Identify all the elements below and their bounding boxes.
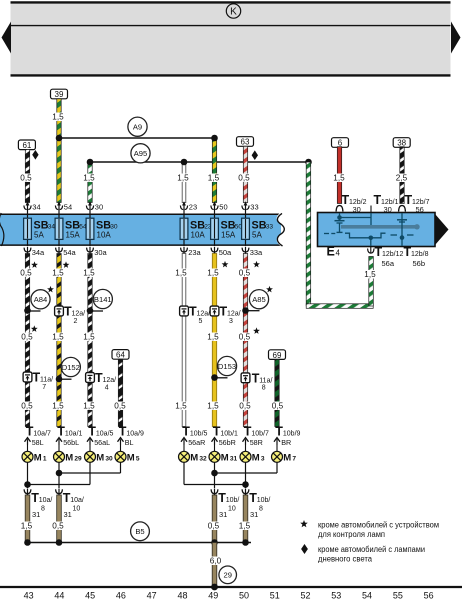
svg-text:4: 4 <box>105 384 109 391</box>
legend star <box>300 520 308 527</box>
svg-text:1,5: 1,5 <box>333 174 345 183</box>
lamp M31 <box>209 451 220 462</box>
svg-text:1,5: 1,5 <box>364 270 376 279</box>
wire 50a yellow <box>212 254 216 427</box>
svg-text:0,5: 0,5 <box>239 269 251 278</box>
diamond mark <box>252 150 258 160</box>
node A95 <box>131 144 150 163</box>
wire A95 to T12b/12, green/white 1.5 <box>306 162 311 306</box>
diamond mark <box>32 150 38 160</box>
svg-text:34a: 34a <box>32 248 45 257</box>
svg-text:дневного света: дневного света <box>318 554 373 563</box>
wire A95 to SB30, green/white 1.5 <box>88 162 92 203</box>
wire 64 black/white 0.5 <box>118 359 122 426</box>
svg-text:30: 30 <box>95 203 103 212</box>
wire 54a yellow/black <box>57 254 61 427</box>
svg-text:56: 56 <box>424 591 434 600</box>
node A9 <box>128 117 147 136</box>
svg-text:кроме автомобилей с устройство: кроме автомобилей с устройством <box>318 520 439 529</box>
svg-text:64: 64 <box>116 351 125 360</box>
fuse SB30 <box>89 203 91 210</box>
svg-text:1,5: 1,5 <box>207 402 219 411</box>
svg-text:10A: 10A <box>191 231 206 240</box>
bottom ground rail <box>0 586 462 588</box>
svg-text:55: 55 <box>393 591 403 600</box>
svg-text:23a: 23a <box>188 248 201 257</box>
wire 39 to A9, green/yellow 1.5 <box>57 99 61 138</box>
svg-text:1: 1 <box>43 456 47 463</box>
svg-text:0,5: 0,5 <box>21 402 33 411</box>
svg-text:11a/: 11a/ <box>259 378 272 385</box>
node D153 <box>211 374 218 381</box>
svg-text:1,5: 1,5 <box>52 333 64 342</box>
svg-text:0,5: 0,5 <box>239 402 251 411</box>
svg-text:34: 34 <box>48 224 56 231</box>
lamp M32 <box>179 451 190 462</box>
svg-text:1,5: 1,5 <box>83 333 95 342</box>
node 38 <box>393 138 410 148</box>
svg-text:A85: A85 <box>252 295 266 304</box>
svg-text:47: 47 <box>147 591 157 600</box>
light switch E4 box <box>318 213 436 247</box>
svg-text:5A: 5A <box>34 231 44 240</box>
svg-text:для контроля ламп: для контроля ламп <box>318 530 385 539</box>
svg-text:кроме автомобилей с лампами: кроме автомобилей с лампами <box>318 545 425 554</box>
svg-text:0,5: 0,5 <box>238 174 250 183</box>
svg-text:10a/: 10a/ <box>70 497 84 504</box>
fuse SB23 <box>183 203 185 210</box>
wire A9 to SB54, green/yellow <box>57 138 61 203</box>
svg-text:54: 54 <box>362 591 372 600</box>
node A95 connection line <box>90 161 309 163</box>
svg-text:1,5: 1,5 <box>207 333 219 342</box>
svg-text:39: 39 <box>55 90 64 99</box>
svg-text:23: 23 <box>189 203 197 212</box>
svg-text:10b/: 10b/ <box>257 497 271 504</box>
svg-text:30a: 30a <box>94 248 107 257</box>
svg-text:33: 33 <box>250 203 258 212</box>
svg-text:52: 52 <box>301 591 311 600</box>
svg-text:61: 61 <box>22 141 31 150</box>
svg-text:11a/: 11a/ <box>40 377 53 384</box>
wire 30a black/white <box>88 254 92 427</box>
svg-text:56aR: 56aR <box>188 438 205 447</box>
lamp M29 <box>54 451 65 462</box>
svg-text:1,5: 1,5 <box>175 269 187 278</box>
svg-text:10A: 10A <box>97 231 112 240</box>
node 6 <box>332 138 349 148</box>
svg-text:M: M <box>221 452 229 463</box>
svg-text:32: 32 <box>199 456 207 463</box>
svg-text:10a/9: 10a/9 <box>126 430 144 437</box>
wire A95 to SB23, white 1.5 <box>182 162 186 203</box>
svg-text:1,5: 1,5 <box>207 269 219 278</box>
svg-text:50: 50 <box>219 203 227 212</box>
svg-text:1,5: 1,5 <box>52 113 64 122</box>
wire 38 to E4, black/white 2.5 <box>400 147 404 204</box>
svg-text:0,5: 0,5 <box>52 522 64 531</box>
lamp M3 <box>240 451 251 462</box>
svg-text:M: M <box>283 452 291 463</box>
svg-text:2: 2 <box>74 318 78 325</box>
junction dots on A9/A95 <box>56 135 63 142</box>
connector T10b/8 ground <box>245 489 247 497</box>
svg-text:69: 69 <box>273 351 282 360</box>
svg-text:51: 51 <box>270 591 280 600</box>
svg-text:12a/: 12a/ <box>103 377 117 384</box>
svg-text:10b/7: 10b/7 <box>251 430 269 437</box>
wire 6 to E4, red 1.5 <box>337 147 341 204</box>
right arrow <box>451 22 461 54</box>
svg-text:50: 50 <box>239 591 249 600</box>
svg-text:M: M <box>96 452 104 463</box>
svg-text:44: 44 <box>54 591 64 600</box>
svg-text:31: 31 <box>64 510 72 519</box>
svg-text:30: 30 <box>105 456 113 463</box>
svg-text:0,5: 0,5 <box>272 402 284 411</box>
lamp M5 <box>115 451 126 462</box>
legend diamond <box>301 544 308 554</box>
svg-text:8: 8 <box>259 506 263 513</box>
svg-text:56bL: 56bL <box>63 438 79 447</box>
svg-text:1,5: 1,5 <box>83 174 95 183</box>
svg-text:30: 30 <box>384 205 392 214</box>
svg-text:31: 31 <box>219 510 227 519</box>
node 29 <box>219 566 237 584</box>
svg-text:A95: A95 <box>134 149 148 158</box>
svg-text:D153: D153 <box>218 362 236 371</box>
svg-text:12a/: 12a/ <box>227 311 241 318</box>
svg-text:15A: 15A <box>221 231 236 240</box>
svg-text:53: 53 <box>331 591 341 600</box>
svg-text:8: 8 <box>262 385 266 392</box>
svg-text:4: 4 <box>336 249 341 258</box>
svg-text:B5: B5 <box>135 527 144 536</box>
svg-text:56: 56 <box>416 205 424 214</box>
svg-text:10a/5: 10a/5 <box>96 430 114 437</box>
node K <box>226 4 240 18</box>
svg-text:1,5: 1,5 <box>52 402 64 411</box>
ground wire 6.0 brown <box>212 543 217 587</box>
pin T12b/12 <box>370 247 372 254</box>
svg-text:K: K <box>230 7 237 18</box>
svg-text:63: 63 <box>241 138 250 147</box>
svg-text:12b/12: 12b/12 <box>382 251 404 258</box>
node 61 <box>18 140 35 150</box>
wire A9 to SB50, green/yellow 1.5 <box>212 138 216 203</box>
svg-text:31: 31 <box>230 456 238 463</box>
svg-text:45: 45 <box>85 591 95 600</box>
svg-text:E: E <box>327 244 335 258</box>
wire 33a red/white <box>243 254 247 427</box>
svg-text:10b/1: 10b/1 <box>220 430 238 437</box>
svg-text:10b/9: 10b/9 <box>283 430 301 437</box>
svg-text:29: 29 <box>74 456 82 463</box>
svg-text:46: 46 <box>116 591 126 600</box>
svg-text:10a/: 10a/ <box>39 497 53 504</box>
wire 63 to SB33, red/white 0.5 <box>243 146 247 202</box>
svg-text:33a: 33a <box>250 248 263 257</box>
svg-text:A9: A9 <box>133 123 142 132</box>
fuse box band <box>0 214 281 245</box>
connector T12a/3 <box>210 306 219 316</box>
svg-text:0,5: 0,5 <box>208 522 220 531</box>
svg-text:D152: D152 <box>62 363 80 372</box>
svg-text:3: 3 <box>261 456 265 463</box>
svg-text:48: 48 <box>177 591 187 600</box>
svg-text:54: 54 <box>64 203 72 212</box>
svg-text:10a/1: 10a/1 <box>65 430 83 437</box>
svg-text:10b/: 10b/ <box>226 497 240 504</box>
bus bar / harness band K <box>11 2 451 76</box>
left arrow <box>2 22 12 54</box>
svg-text:34: 34 <box>32 203 40 212</box>
wire 34a black/white <box>25 254 29 427</box>
svg-text:7: 7 <box>42 384 46 391</box>
svg-text:BL: BL <box>125 438 134 447</box>
svg-text:B141: B141 <box>94 295 112 304</box>
connector T11a/7 <box>23 372 32 382</box>
svg-text:3: 3 <box>229 318 233 325</box>
pin T12b/2 <box>336 206 343 212</box>
svg-text:0,5: 0,5 <box>20 174 32 183</box>
svg-text:M: M <box>190 452 198 463</box>
svg-text:M: M <box>127 452 135 463</box>
svg-text:49: 49 <box>208 591 218 600</box>
svg-text:1,5: 1,5 <box>239 522 251 531</box>
svg-text:12a/: 12a/ <box>197 311 211 318</box>
ground bus line <box>28 542 252 544</box>
svg-text:1,5: 1,5 <box>21 522 33 531</box>
svg-text:2,5: 2,5 <box>396 174 408 183</box>
svg-text:1,5: 1,5 <box>52 269 64 278</box>
svg-text:0,5: 0,5 <box>239 333 251 342</box>
svg-text:10: 10 <box>73 506 81 513</box>
svg-text:30: 30 <box>110 224 118 231</box>
svg-text:56bR: 56bR <box>219 438 236 447</box>
svg-text:M: M <box>65 452 73 463</box>
svg-text:33: 33 <box>266 224 274 231</box>
svg-text:10b/5: 10b/5 <box>190 430 208 437</box>
node A85 <box>242 307 249 314</box>
svg-text:5A: 5A <box>252 231 262 240</box>
svg-text:BR: BR <box>281 438 291 447</box>
fuse SB33 <box>245 203 247 210</box>
svg-text:15A: 15A <box>66 231 81 240</box>
wire labels row A <box>19 269 33 278</box>
svg-text:1,5: 1,5 <box>208 174 220 183</box>
svg-text:56b: 56b <box>413 259 426 268</box>
node A84 <box>24 307 31 314</box>
fuse SB34 <box>27 203 29 210</box>
svg-text:0,5: 0,5 <box>114 402 126 411</box>
svg-text:8: 8 <box>41 506 45 513</box>
svg-text:58L: 58L <box>32 438 44 447</box>
wire labels row C <box>20 333 34 342</box>
svg-text:6,0: 6,0 <box>210 557 222 566</box>
svg-text:54a: 54a <box>63 248 76 257</box>
lamp M30 <box>85 451 96 462</box>
node B141 <box>87 307 94 314</box>
pin T12b/7 <box>399 206 406 212</box>
pin T12b/1 <box>370 206 372 213</box>
wire 23a white <box>182 254 186 427</box>
svg-text:M: M <box>34 452 42 463</box>
node A9 connection line <box>59 137 215 139</box>
connector T10b/10 ground <box>214 489 216 497</box>
svg-text:31: 31 <box>250 510 258 519</box>
connector T11a/8 <box>241 373 250 383</box>
svg-text:1,5: 1,5 <box>83 269 95 278</box>
connector T12a/2 <box>55 306 64 316</box>
connector T10a/10 ground <box>58 489 60 497</box>
svg-text:M: M <box>252 452 260 463</box>
svg-text:43: 43 <box>24 591 34 600</box>
svg-text:12a/: 12a/ <box>72 311 86 318</box>
svg-text:56a: 56a <box>382 259 395 268</box>
svg-text:31: 31 <box>32 510 40 519</box>
wires below lamps <box>27 462 29 484</box>
svg-text:0,5: 0,5 <box>20 269 32 278</box>
svg-text:7: 7 <box>292 456 296 463</box>
svg-text:12b/8: 12b/8 <box>411 251 429 258</box>
svg-text:5: 5 <box>136 456 140 463</box>
node D152 <box>56 376 63 383</box>
svg-text:29: 29 <box>223 571 231 580</box>
node 39 <box>51 89 68 99</box>
fuse SB54 <box>58 203 60 210</box>
fuse SB50 <box>214 203 216 210</box>
node B5 <box>131 522 150 541</box>
svg-text:10: 10 <box>228 506 236 513</box>
node 64 <box>112 350 129 360</box>
svg-text:58R: 58R <box>250 438 263 447</box>
E4 internals <box>324 213 420 246</box>
svg-text:1,5: 1,5 <box>175 402 187 411</box>
svg-text:56aL: 56aL <box>94 438 110 447</box>
wire labels row E <box>20 402 34 411</box>
wire 61 to SB34, black/white 0.5 <box>25 150 29 203</box>
svg-text:1,5: 1,5 <box>177 174 189 183</box>
svg-text:0,5: 0,5 <box>21 333 33 342</box>
lamp M1 <box>22 451 33 462</box>
wire 69 green/black 0.5 <box>275 359 279 426</box>
svg-text:5: 5 <box>199 318 203 325</box>
connector T12a/4 <box>86 373 95 383</box>
lamp M7 <box>272 451 283 462</box>
connector T12a/5 <box>180 306 189 316</box>
svg-text:30: 30 <box>353 205 361 214</box>
node 69 <box>269 350 286 360</box>
connector T10a/8 ground <box>27 489 29 497</box>
svg-text:1,5: 1,5 <box>83 402 95 411</box>
svg-text:50a: 50a <box>219 248 232 257</box>
svg-text:A84: A84 <box>34 295 48 304</box>
svg-text:10a/7: 10a/7 <box>33 430 51 437</box>
node 63 <box>237 137 254 147</box>
